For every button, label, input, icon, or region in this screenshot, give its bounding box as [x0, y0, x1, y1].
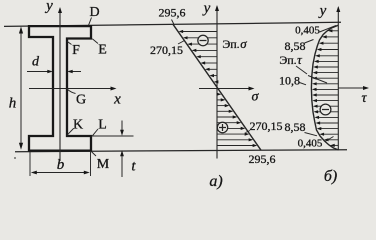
svg-text:295,6: 295,6 — [159, 6, 186, 20]
svg-text:10,8: 10,8 — [279, 74, 300, 88]
svg-text:G: G — [76, 93, 86, 108]
svg-text:E: E — [98, 43, 107, 58]
svg-text:Эп.: Эп. — [222, 37, 239, 51]
svg-text:y: y — [318, 3, 327, 19]
svg-text:L: L — [98, 118, 107, 133]
svg-text:б): б) — [324, 168, 337, 185]
svg-text:d: d — [32, 55, 40, 70]
svg-text:M: M — [97, 157, 110, 172]
svg-text:а): а) — [209, 173, 222, 190]
svg-text:h: h — [9, 96, 17, 112]
svg-text:8,58: 8,58 — [285, 39, 306, 53]
svg-text:295,6: 295,6 — [249, 152, 276, 166]
svg-text:x: x — [113, 92, 121, 108]
svg-text:270,15: 270,15 — [250, 119, 283, 133]
svg-text:F: F — [72, 43, 80, 58]
svg-text:b: b — [57, 157, 65, 173]
svg-text:D: D — [89, 5, 99, 20]
svg-text:σ: σ — [240, 36, 247, 51]
svg-text:0,405: 0,405 — [298, 138, 323, 150]
svg-text:270,15: 270,15 — [150, 43, 183, 57]
svg-text:Эп.: Эп. — [279, 53, 296, 67]
svg-text:y: y — [202, 1, 211, 17]
svg-text:y: y — [44, 0, 53, 14]
svg-text:K: K — [73, 118, 83, 133]
svg-text:8,58: 8,58 — [285, 120, 306, 134]
svg-text:σ: σ — [252, 90, 260, 105]
svg-text:0,405: 0,405 — [295, 25, 320, 37]
